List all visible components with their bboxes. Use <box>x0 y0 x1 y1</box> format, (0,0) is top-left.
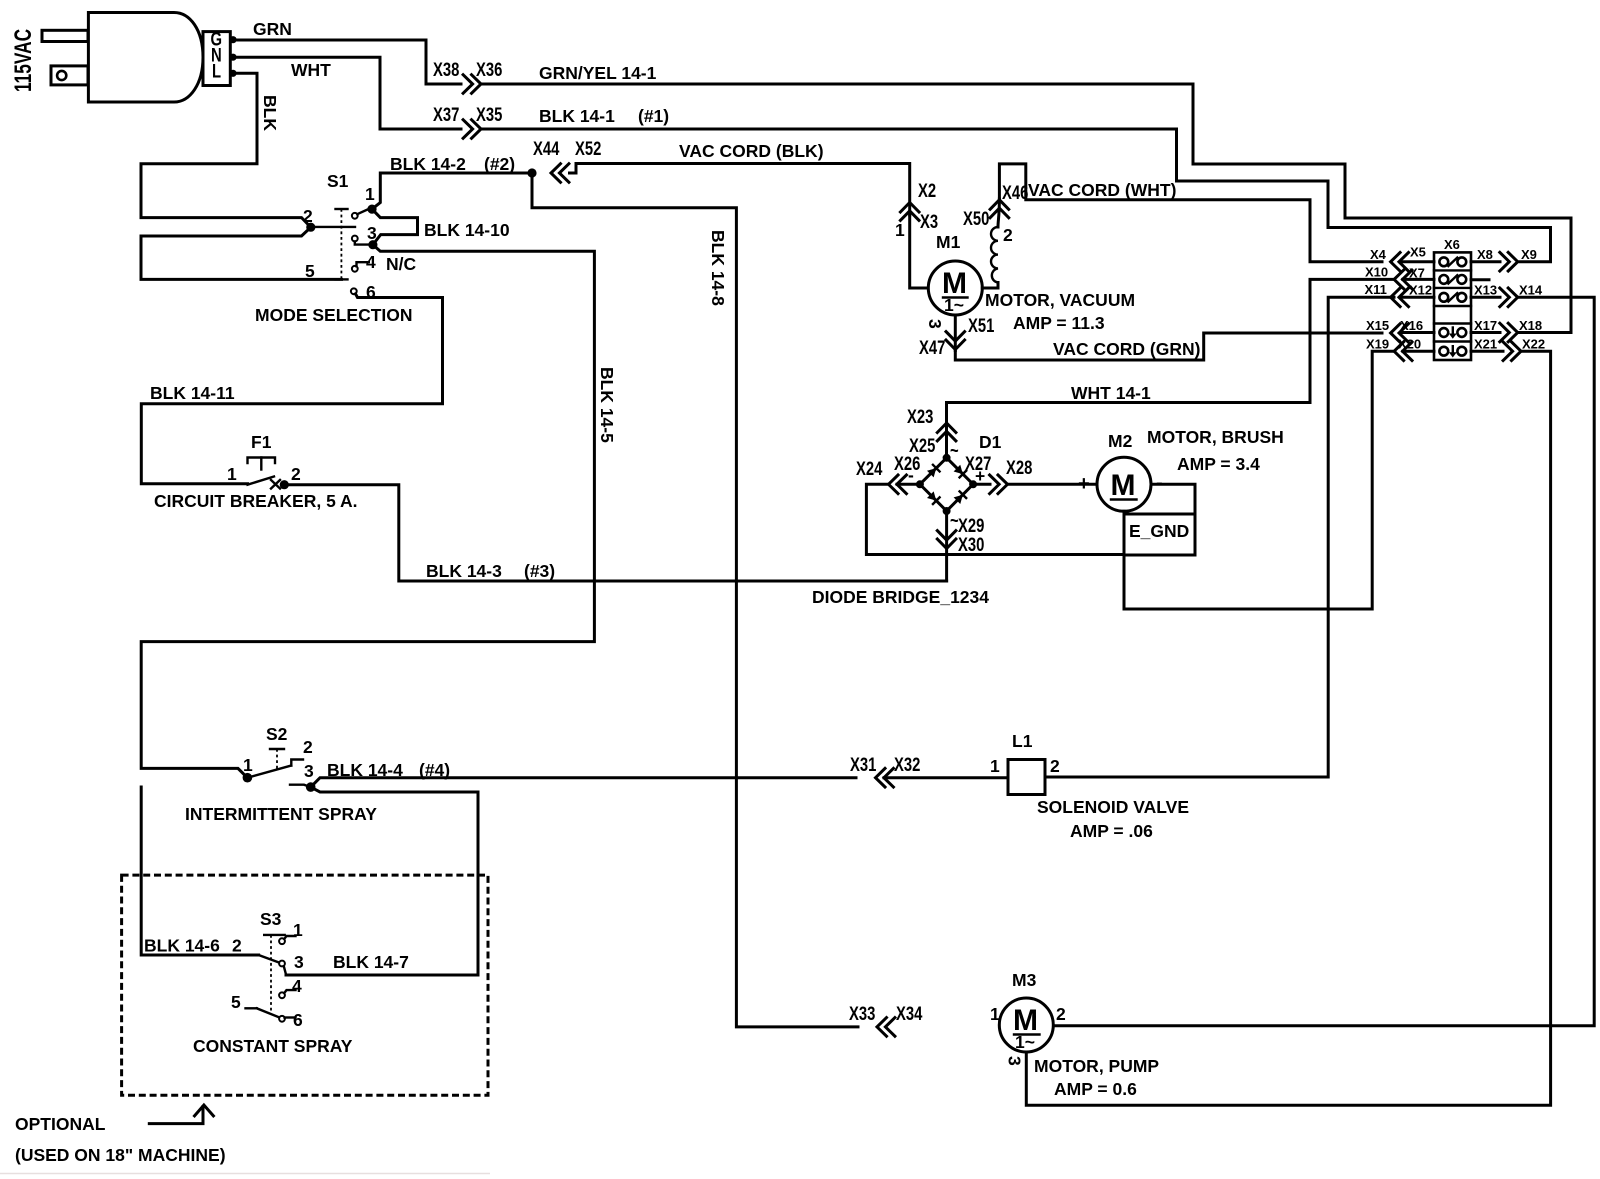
F1 blade <box>248 477 275 485</box>
connector X37/X35 arrows <box>463 120 481 139</box>
wire WHT 14-1 from bridge to X6 row2 <box>947 279 1394 457</box>
svg-text:2: 2 <box>303 206 313 226</box>
X6 cell6 contacts <box>1439 346 1466 357</box>
svg-text:X2: X2 <box>918 180 936 201</box>
svg-text:DIODE BRIDGE_1234: DIODE BRIDGE_1234 <box>812 587 989 607</box>
svg-text:X4: X4 <box>1370 247 1387 262</box>
svg-text:BLK 14-7: BLK 14-7 <box>333 952 409 972</box>
connector X4/X5 arrows (row1 left) <box>1391 252 1409 271</box>
connector X2/X3 arrows <box>900 203 919 221</box>
connector X29/X30 arrows <box>937 531 956 549</box>
svg-text:5: 5 <box>231 992 241 1012</box>
svg-text:E_GND: E_GND <box>1129 521 1189 541</box>
svg-text:X20: X20 <box>1398 337 1421 352</box>
wire X3 to M1 pin1 <box>910 215 929 288</box>
bottom faint line <box>0 1173 490 1175</box>
X6 cell5 contacts <box>1439 328 1466 339</box>
row6 right stub <box>1471 350 1503 353</box>
svg-text:OPTIONAL: OPTIONAL <box>15 1114 106 1134</box>
S3 contact 6 circle <box>279 1016 285 1022</box>
svg-text:X23: X23 <box>907 406 933 427</box>
svg-text:3: 3 <box>294 952 304 972</box>
wire S1 pin1 up to BLK 14-2 <box>372 173 532 209</box>
S1 contact 1 link <box>357 209 368 214</box>
connector X31/X32 arrows <box>876 768 894 787</box>
svg-text:5: 5 <box>305 261 315 281</box>
wire X22 down to M3 pin3 <box>1026 351 1550 1105</box>
svg-text:2: 2 <box>1050 756 1060 776</box>
svg-text:BLK 14-2: BLK 14-2 <box>390 154 466 174</box>
X6 divider 5 <box>1434 340 1471 342</box>
connector X13/X14 arrows (row3 right) <box>1500 288 1518 307</box>
wire WHT from plug to X37 <box>236 57 461 129</box>
svg-text:X28: X28 <box>1006 457 1032 478</box>
S3 blade 2-3 <box>259 955 284 964</box>
plug GNL terminal box <box>203 32 230 86</box>
S3 pole T-bar <box>264 934 285 936</box>
S3 contact 6 hook <box>285 1016 296 1018</box>
svg-text:X7: X7 <box>1409 266 1425 281</box>
row3 left stub <box>1402 296 1434 299</box>
svg-text:2: 2 <box>291 464 301 484</box>
S2 pin3 dot <box>306 782 316 792</box>
svg-text:X3: X3 <box>920 211 938 232</box>
inductor coil M1 <box>991 227 998 283</box>
svg-text:X16: X16 <box>1400 318 1423 333</box>
S3 blade 5-6 <box>257 1008 284 1019</box>
S1 contact 3 circle <box>352 236 358 242</box>
connector X17/X18 arrows (row5 right) <box>1500 323 1518 342</box>
S1 contact 1 circle <box>352 213 358 219</box>
wire X28 to M2 plus <box>1008 483 1098 486</box>
wire BLK 14-6 into S3 pin2 <box>141 787 258 955</box>
svg-text:3: 3 <box>1005 1056 1025 1066</box>
wire VAC CORD (GRN) to X6 row5 <box>955 333 1382 360</box>
wire S1 pin2 to pin5 link <box>141 227 342 279</box>
plug prong top <box>42 30 88 41</box>
svg-text:2: 2 <box>1003 225 1013 245</box>
S3 contact 3 circle <box>279 961 285 967</box>
svg-text:INTERMITTENT SPRAY: INTERMITTENT SPRAY <box>185 804 377 824</box>
svg-text:X33: X33 <box>849 1003 875 1024</box>
svg-text:3: 3 <box>925 319 945 329</box>
diode BR <box>954 491 967 504</box>
wire M2 minus to E_GND box <box>1151 484 1195 514</box>
svg-text:X51: X51 <box>968 315 994 336</box>
svg-text:AMP = 3.4: AMP = 3.4 <box>1177 454 1260 474</box>
svg-text:2: 2 <box>232 936 242 956</box>
svg-text:X19: X19 <box>1366 337 1389 352</box>
S1 pin3 dot <box>368 240 377 249</box>
wire VAC CORD (BLK) to M1 <box>570 164 910 216</box>
svg-text:X36: X36 <box>476 59 502 80</box>
svg-text:X18: X18 <box>1519 318 1542 333</box>
svg-text:1: 1 <box>293 920 303 940</box>
svg-text:AMP = 0.6: AMP = 0.6 <box>1054 1079 1137 1099</box>
connector X50/X46 arrows <box>990 200 1009 218</box>
wire L1 pin2 up to X6 row3 left <box>1045 297 1394 777</box>
svg-text:GRN: GRN <box>253 19 292 39</box>
diode TR <box>954 465 967 478</box>
svg-text:X38: X38 <box>433 59 459 80</box>
svg-text:M3: M3 <box>1012 970 1037 990</box>
wire M1 pin2 coil X50 <box>982 283 998 289</box>
svg-text:2: 2 <box>1056 1004 1066 1024</box>
diode TL <box>927 465 940 478</box>
S3 contact 1 hook <box>284 936 295 939</box>
svg-text:X35: X35 <box>476 104 502 125</box>
S3 contact 3 link <box>284 966 286 974</box>
svg-text:1: 1 <box>243 755 253 775</box>
svg-text:L: L <box>212 61 221 82</box>
S3 contact 4 circle <box>279 992 285 998</box>
svg-text:4: 4 <box>292 976 302 996</box>
svg-text:3: 3 <box>367 223 377 243</box>
connector X23/X25 arrows <box>937 423 956 441</box>
svg-text:6: 6 <box>293 1010 303 1030</box>
svg-text:M2: M2 <box>1108 431 1133 451</box>
svg-text:BLK 14-11: BLK 14-11 <box>150 383 235 403</box>
terminal dot N <box>229 54 236 61</box>
X6 divider 2 <box>1434 287 1471 289</box>
svg-text:X30: X30 <box>958 534 984 555</box>
svg-text:VAC CORD (BLK): VAC CORD (BLK) <box>679 141 824 161</box>
bridge node dots <box>943 454 951 462</box>
S3 contact 4 hook <box>284 990 295 993</box>
row6 left stub <box>1403 350 1434 353</box>
svg-text:BLK 14-8: BLK 14-8 <box>708 230 728 306</box>
svg-text:1: 1 <box>365 184 375 204</box>
svg-text:BLK 14-6: BLK 14-6 <box>144 936 220 956</box>
svg-text:X6: X6 <box>1444 237 1460 252</box>
X6 divider 1 <box>1434 269 1471 271</box>
svg-text:1: 1 <box>227 464 237 484</box>
svg-text:X9: X9 <box>1521 247 1537 262</box>
connector X38/X36 arrows <box>463 75 481 94</box>
S2 blade <box>247 766 291 778</box>
X6 divider 3 <box>1434 305 1471 307</box>
row5 right stub <box>1471 331 1500 334</box>
svg-text:MOTOR, PUMP: MOTOR, PUMP <box>1034 1056 1159 1076</box>
wire bridge minus stub <box>897 483 920 486</box>
svg-text:AMP = .06: AMP = .06 <box>1070 821 1153 841</box>
svg-text:115VAC: 115VAC <box>10 29 36 92</box>
E_GND box <box>1124 514 1195 555</box>
svg-text:S2: S2 <box>266 724 288 744</box>
svg-text:MODE SELECTION: MODE SELECTION <box>255 305 413 325</box>
row1 right stub <box>1471 260 1500 263</box>
plug prong bottom <box>51 66 88 85</box>
S1 contact 4 circle N/C <box>352 266 358 272</box>
svg-text:X22: X22 <box>1522 337 1545 352</box>
F1 bracket <box>248 458 276 464</box>
S2 pole line <box>276 749 278 770</box>
wire M2 bottom to X20 riser <box>1124 351 1394 609</box>
svg-text:WHT 14-1: WHT 14-1 <box>1071 383 1151 403</box>
svg-text:(#2): (#2) <box>484 154 515 174</box>
S2 contact 3 hook <box>290 785 311 787</box>
S1 contact 3 link <box>355 241 368 244</box>
svg-text:CONSTANT SPRAY: CONSTANT SPRAY <box>193 1036 353 1056</box>
power plug P1 body <box>88 13 203 103</box>
svg-text:L1: L1 <box>1012 731 1033 751</box>
svg-text:X17: X17 <box>1474 318 1497 333</box>
wire X46 up to VAC CORD (WHT) <box>999 164 1382 262</box>
S1 pole T-bar top <box>336 208 348 210</box>
S2 pole T-bar <box>270 748 284 750</box>
diode BL <box>927 491 940 504</box>
svg-text:BLK 14-4: BLK 14-4 <box>327 760 403 780</box>
svg-text:1: 1 <box>895 220 905 240</box>
svg-text:BLK 14-1: BLK 14-1 <box>539 106 615 126</box>
svg-text:X12: X12 <box>1409 283 1432 298</box>
S1 contact 4 hook <box>357 262 369 266</box>
svg-text:BLK 14-3: BLK 14-3 <box>426 561 502 581</box>
wire S1 pin6 to F1 <box>141 294 442 484</box>
row2 left stub <box>1403 278 1434 281</box>
connector X24 arrows <box>889 475 907 494</box>
wire BLK 14-2 down from X44 to BLK 14-8 and M3 <box>532 173 858 1027</box>
row5 left stub <box>1402 331 1434 334</box>
wire M1 pin3 <box>954 315 957 351</box>
svg-text:(#4): (#4) <box>419 760 450 780</box>
svg-text:GRN/YEL 14-1: GRN/YEL 14-1 <box>539 63 657 83</box>
svg-text:X24: X24 <box>856 458 883 479</box>
F1 pin2 dot <box>280 480 289 489</box>
wire F1 pin2 to diode bridge BLK 14-3 <box>284 485 946 581</box>
svg-text:VAC CORD (WHT): VAC CORD (WHT) <box>1028 180 1176 200</box>
junction dot X44 <box>527 168 536 177</box>
F1 stem <box>260 458 262 470</box>
connector X8/X9 arrows (row1 right) <box>1500 252 1518 271</box>
S1 pin1 dot <box>367 205 376 214</box>
S3 pole dashed line <box>270 935 272 1013</box>
S3 contact 1 circle <box>279 938 285 944</box>
connector X52/X44 arrows <box>551 164 569 183</box>
coil stub to X50 <box>998 199 999 227</box>
S3 pin5 wire <box>246 1007 257 1009</box>
svg-text:MOTOR, VACUUM: MOTOR, VACUUM <box>985 290 1135 310</box>
wire BLK 14-10 U-link pin1-pin3 <box>372 209 418 245</box>
svg-text:+: + <box>1078 473 1090 495</box>
svg-text:1: 1 <box>990 756 1000 776</box>
svg-text:1~: 1~ <box>1015 1032 1035 1052</box>
svg-text:X13: X13 <box>1474 283 1497 298</box>
motor M2 circle <box>1097 457 1151 511</box>
svg-text:1~: 1~ <box>944 295 964 315</box>
svg-text:BLK: BLK <box>260 95 280 131</box>
svg-text:X10: X10 <box>1365 265 1388 280</box>
svg-text:X31: X31 <box>850 754 876 775</box>
wire S1 pin3 to BLK 14-5 down to S2 <box>141 245 594 778</box>
svg-text:SOLENOID VALVE: SOLENOID VALVE <box>1037 797 1189 817</box>
row3 right stub <box>1471 296 1500 299</box>
motor M3 circle <box>999 998 1053 1052</box>
wire bridge plus stub <box>973 483 990 486</box>
X6 cell2 contacts <box>1439 275 1466 284</box>
svg-text:WHT: WHT <box>291 60 331 80</box>
svg-text:X34: X34 <box>896 1003 923 1024</box>
svg-text:X44: X44 <box>533 138 560 159</box>
connector X33/X34 arrows <box>877 1018 895 1037</box>
connector X10/X7 arrows (row2 left) <box>1394 270 1412 289</box>
svg-text:X21: X21 <box>1474 337 1497 352</box>
connector X11/X12 arrows (row3 left) <box>1391 288 1409 307</box>
wire BLK from plug L to S1 pin2 <box>141 73 311 227</box>
wire bridge minus to E_GND bottom <box>866 484 1124 554</box>
S2 pin1 dot <box>243 773 253 783</box>
S1 pin2 junction dot <box>306 223 315 232</box>
optional arrowhead <box>195 1105 214 1116</box>
terminal dot L <box>229 70 236 77</box>
wire BLK 14-4 S2 pin3 to L1 <box>311 778 856 787</box>
wire X14 down right edge to M3 pin2 <box>1053 297 1594 1025</box>
svg-text:X32: X32 <box>894 754 920 775</box>
X6 divider 4 <box>1434 322 1471 324</box>
svg-text:F1: F1 <box>251 432 272 452</box>
svg-text:BLK 14-10: BLK 14-10 <box>424 220 510 240</box>
S1 pole dashed line <box>340 209 342 279</box>
svg-text:X37: X37 <box>433 104 459 125</box>
svg-text:CIRCUIT BREAKER, 5 A.: CIRCUIT BREAKER, 5 A. <box>154 491 358 511</box>
F1 x-mark <box>271 480 280 489</box>
svg-text:M: M <box>1111 469 1136 502</box>
S1 pole T-bar bottom <box>336 278 348 280</box>
wire S2 pin3 lower to BLK 14-7 <box>286 787 478 975</box>
svg-text:AMP = 11.3: AMP = 11.3 <box>1013 313 1105 333</box>
svg-text:S3: S3 <box>260 909 282 929</box>
X6 cell3 contacts <box>1439 293 1466 302</box>
svg-text:2: 2 <box>303 737 313 757</box>
svg-text:M1: M1 <box>936 232 961 252</box>
svg-text:S1: S1 <box>327 171 349 191</box>
svg-text:(USED ON 18" MACHINE): (USED ON 18" MACHINE) <box>15 1145 226 1165</box>
svg-text:X11: X11 <box>1365 282 1387 297</box>
svg-text:3: 3 <box>304 761 314 781</box>
svg-text:MOTOR, BRUSH: MOTOR, BRUSH <box>1147 427 1284 447</box>
connector X19/X20 arrows (row6 left) <box>1394 342 1412 361</box>
svg-text:X50: X50 <box>963 208 989 229</box>
S1 pin2 blade <box>311 226 355 228</box>
wire BLK 14-1 to X9 staircase <box>481 129 1551 262</box>
svg-text:(#1): (#1) <box>638 106 669 126</box>
svg-text:VAC CORD (GRN): VAC CORD (GRN) <box>1053 339 1200 359</box>
svg-text:D1: D1 <box>979 432 1002 452</box>
S1 contact 6 circle <box>351 288 357 294</box>
wire bridge bottom <box>945 511 948 581</box>
svg-text:X52: X52 <box>575 138 601 159</box>
dashed optional box <box>122 875 488 1095</box>
connector block X6 outer <box>1434 252 1471 360</box>
connector X21/X22 arrows (row6 right) <box>1503 342 1521 361</box>
svg-text:4: 4 <box>366 252 376 272</box>
svg-text:BLK 14-5: BLK 14-5 <box>597 367 617 443</box>
solenoid L1 box <box>1008 760 1045 795</box>
svg-text:X14: X14 <box>1519 283 1543 298</box>
optional arrow <box>149 1107 203 1124</box>
X6 cell1 contacts <box>1439 257 1466 266</box>
svg-text:~: ~ <box>950 440 959 461</box>
diode bridge D1 diamond <box>920 458 973 511</box>
connector X15/X16 arrows (row5 left) <box>1391 324 1409 343</box>
svg-text:N/C: N/C <box>386 254 417 274</box>
connector X28 arrows <box>990 475 1008 494</box>
plug prong hole <box>57 71 66 80</box>
row2 right stub <box>1471 278 1489 281</box>
motor M1 circle <box>928 261 982 315</box>
svg-text:-: - <box>908 465 914 485</box>
svg-text:X47: X47 <box>919 337 945 358</box>
connector X51/X47 arrows <box>946 332 965 350</box>
wire X32 to L1 pin1 <box>884 776 1008 779</box>
terminal dot G <box>229 36 236 43</box>
wire GRN/YEL 14-1 <box>481 84 1571 333</box>
svg-text:X15: X15 <box>1366 318 1389 333</box>
wire GRN from plug to X38 <box>236 40 461 84</box>
svg-text:(#3): (#3) <box>524 561 555 581</box>
row1 left stub <box>1402 260 1434 263</box>
svg-text:X8: X8 <box>1477 247 1493 262</box>
svg-text:X5: X5 <box>1410 245 1426 260</box>
S2 contact 2 hook <box>291 760 303 766</box>
